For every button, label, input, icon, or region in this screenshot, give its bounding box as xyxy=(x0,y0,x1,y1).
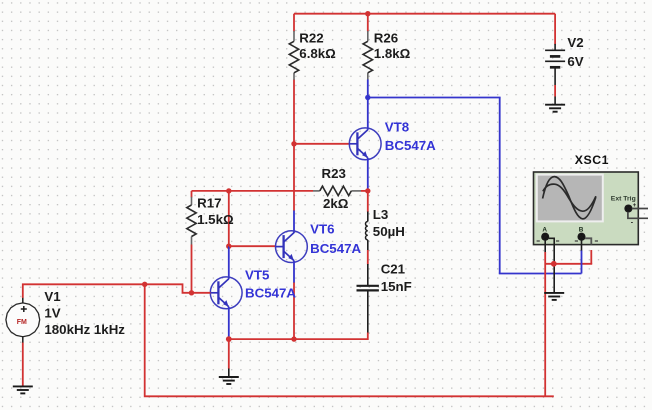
pin B- L stub xyxy=(585,238,591,244)
resistor R22 xyxy=(293,31,295,80)
wire: A+ to bottom rail red xyxy=(544,252,546,396)
wire: VT8 emitter blue xyxy=(367,158,369,191)
svg-text:1.5kΩ: 1.5kΩ xyxy=(197,212,234,227)
wire: R22 top lead xyxy=(293,14,295,32)
svg-text:6V: 6V xyxy=(567,54,583,69)
wire: A- to ground black xyxy=(553,245,555,293)
wire: V1 top lead xyxy=(23,284,211,298)
node junction V1 net / bottom rail drop xyxy=(142,282,147,287)
node junction R17 / VT5 base xyxy=(189,290,194,295)
wire: C21 bottom red corner xyxy=(229,333,368,340)
wire: blue net to B+ xyxy=(499,273,582,275)
capacitor C21 xyxy=(357,286,379,291)
svg-text:BC547A: BC547A xyxy=(385,138,436,153)
wire: V2 top lead xyxy=(554,14,556,45)
node junction VT5 emitter / emitter rail xyxy=(226,336,232,342)
wire: VT6 base red xyxy=(229,245,276,247)
wire: A+ black stub xyxy=(544,240,546,252)
wire: red segment below R23 node xyxy=(367,191,369,212)
ground under V2 xyxy=(545,105,565,112)
transistor VT6 (BC547A) xyxy=(276,231,308,263)
wire: drop to bottom rail xyxy=(145,284,554,396)
node junction VT6 emitter / emitter rail xyxy=(291,336,296,341)
wire: R23 right lead red xyxy=(361,190,368,192)
ground under V1 xyxy=(13,386,33,393)
wire: red segment between L3 and C21 xyxy=(367,250,369,265)
wire: VT5 collector red xyxy=(228,191,230,246)
svg-text:L3: L3 xyxy=(373,207,389,222)
node junction R22/VT8 base xyxy=(291,141,296,146)
node junction top rail / R26 xyxy=(365,11,370,16)
wire: V2 negative lead red xyxy=(554,85,556,97)
wire: R22 bottom to VT6 collector column xyxy=(293,80,295,212)
node junction R17-R23 wire / VT5 collector xyxy=(226,188,231,193)
resistor R26 xyxy=(367,31,369,80)
node junction R23 / VT8 emitter column xyxy=(365,188,370,193)
svg-text:R23: R23 xyxy=(322,166,346,181)
pin A- L stub xyxy=(549,238,554,244)
svg-text:1.8kΩ: 1.8kΩ xyxy=(374,46,411,61)
wire: C21 bottom lead xyxy=(367,290,369,333)
inductor L3 xyxy=(367,212,369,222)
svg-text:R17: R17 xyxy=(197,195,221,210)
wire: R17 bottom lead red xyxy=(191,245,193,293)
wire: VT6 emitter blue stub xyxy=(293,261,295,283)
svg-text:V2: V2 xyxy=(567,35,583,50)
wire: VT5 collector blue to circle xyxy=(228,246,230,279)
svg-text:XSC1: XSC1 xyxy=(575,153,609,167)
svg-text:R22: R22 xyxy=(299,31,323,46)
svg-text:VT5: VT5 xyxy=(245,267,270,282)
svg-text:15nF: 15nF xyxy=(381,279,412,294)
transistor VT8 (BC547A) xyxy=(349,128,381,160)
svg-text:A: A xyxy=(542,227,547,234)
svg-text:FM: FM xyxy=(17,319,27,326)
ground under scope xyxy=(544,293,564,300)
ground under VT5 xyxy=(219,377,239,384)
wire: VT5 emitter blue xyxy=(228,307,230,339)
wire: VT6 collector blue segment xyxy=(293,211,295,234)
resistor R17 xyxy=(191,191,193,198)
svg-text:6.8kΩ: 6.8kΩ xyxy=(299,46,336,61)
svg-text:B: B xyxy=(579,227,584,234)
wire: B+ blue xyxy=(581,251,583,274)
wire: R17-top to R23 horizontal xyxy=(192,190,314,192)
svg-text:V1: V1 xyxy=(44,289,61,304)
svg-text:C21: C21 xyxy=(381,262,406,277)
svg-text:VT6: VT6 xyxy=(310,222,334,237)
wire: blue net to scope channel B (horizontal top) xyxy=(368,97,501,99)
wire: VT5 emitter to ground red xyxy=(228,339,230,369)
pin polarity dashes xyxy=(537,240,598,242)
transistor VT5 (BC547A) xyxy=(210,277,242,309)
wire: VT5 ground stub xyxy=(228,369,230,378)
wire: R26 top lead xyxy=(367,14,369,32)
wire: B+ black stub xyxy=(581,240,583,251)
svg-text:BC547A: BC547A xyxy=(245,286,296,301)
battery V2 xyxy=(545,44,565,85)
wire: trigger red horizontal xyxy=(545,263,592,265)
node junction trigger / ground wire xyxy=(551,261,557,267)
svg-text:1V: 1V xyxy=(44,306,60,321)
resistor R23 xyxy=(313,190,361,192)
node junction R26 / scope-B net xyxy=(365,95,370,100)
svg-text:180kHz 1kHz: 180kHz 1kHz xyxy=(44,322,125,337)
svg-text:50µH: 50µH xyxy=(373,224,405,239)
FM source V1 xyxy=(6,298,40,344)
ext trig stubs xyxy=(632,208,648,210)
wire: VT6 emitter red xyxy=(293,283,295,340)
oscilloscope XSC1 xyxy=(534,153,649,245)
wire: C21 top lead xyxy=(367,264,369,286)
node junction VT5 collector / VT6 base xyxy=(226,244,231,249)
scope trace A xyxy=(543,177,596,219)
wire: VT8 base xyxy=(294,143,350,145)
svg-text:2kΩ: 2kΩ xyxy=(323,196,349,211)
wire: R26 bottom blue to VT8 collector xyxy=(367,80,369,130)
ext trig terminal xyxy=(625,205,632,212)
scope trace B xyxy=(543,184,596,211)
svg-text:BC547A: BC547A xyxy=(310,241,361,256)
svg-text:R26: R26 xyxy=(374,31,398,46)
wire: B- red vertical xyxy=(590,250,592,264)
svg-text:Ext Trig: Ext Trig xyxy=(611,195,636,202)
wire: top power rail xyxy=(294,13,555,15)
wire: blue net vertical xyxy=(499,98,501,274)
wire: V1 bottom lead xyxy=(22,343,24,387)
wire: V2 ground stub xyxy=(554,97,556,105)
svg-text:VT8: VT8 xyxy=(385,120,409,135)
